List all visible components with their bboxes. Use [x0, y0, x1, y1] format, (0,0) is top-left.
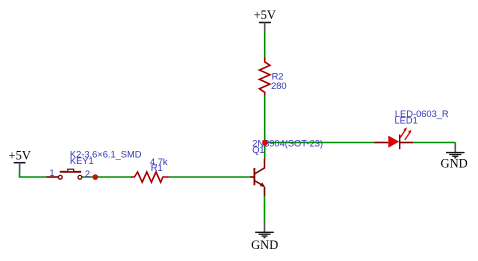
power flag +5V (left)	[9, 149, 31, 173]
wire +5V top down to R2	[264, 32, 266, 58]
ground (right)	[441, 143, 468, 171]
resistor R1	[131, 172, 169, 182]
svg-text:2: 2	[85, 169, 90, 179]
junction dot at collector node	[262, 140, 268, 146]
wire R1 to Q1 base	[169, 176, 250, 178]
svg-text:280: 280	[271, 81, 287, 91]
svg-text:R1: R1	[151, 163, 163, 173]
wire R2 bottom to Q1 collector (through junction)	[264, 95, 266, 158]
svg-text:GND: GND	[441, 157, 468, 171]
svg-text:GND: GND	[251, 238, 278, 252]
LED1	[375, 127, 414, 149]
power flag +5V (top)	[254, 8, 276, 32]
svg-text:Q1: Q1	[252, 145, 264, 155]
switch KEY1	[47, 169, 82, 179]
resistor R2	[259, 57, 270, 95]
wire from +5V left corner to switch pin 1	[20, 172, 47, 177]
svg-text:KEY1: KEY1	[70, 156, 94, 166]
ground (bottom, emitter)	[251, 222, 278, 252]
transistor Q1	[250, 158, 265, 196]
wire switch pin2 to R1	[82, 176, 132, 178]
svg-text:+5V: +5V	[9, 149, 31, 163]
wire LED cathode to right GND	[413, 142, 455, 144]
svg-text:LED1: LED1	[395, 116, 418, 126]
svg-text:+5V: +5V	[254, 8, 276, 22]
svg-text:1: 1	[49, 168, 54, 178]
junction dot at switch pin2 node	[93, 174, 99, 180]
wire collector node to LED anode	[265, 142, 375, 144]
wire Q1 emitter down to GND	[264, 196, 266, 223]
